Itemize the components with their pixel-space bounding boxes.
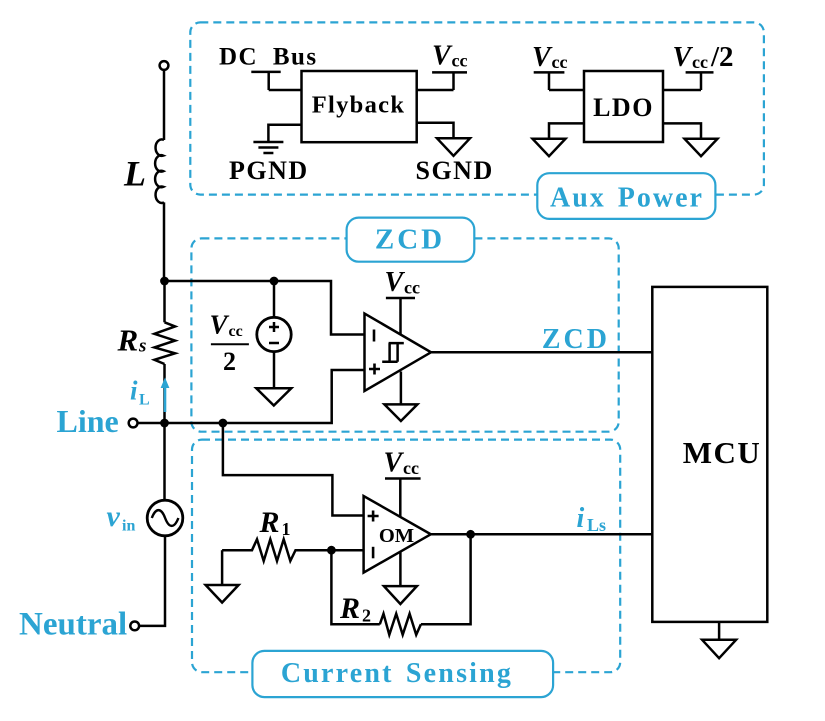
ground Vcc/2 source — [256, 388, 291, 405]
svg-text:v: v — [107, 500, 121, 533]
label Vcc OM — [384, 448, 419, 479]
node DC Bus terminal bar — [251, 72, 280, 90]
label Vcc/2 fraction — [210, 310, 249, 377]
node junction Line row / main column — [160, 419, 169, 428]
wire Rs to Line node — [163, 364, 166, 423]
wire DC Bus to Flyback — [269, 89, 302, 92]
svg-text:i: i — [130, 376, 138, 406]
svg-text:cc: cc — [404, 278, 420, 298]
svg-text:V: V — [673, 42, 694, 73]
label minus input U1 — [373, 330, 376, 342]
node Vcc terminal bar (LDO input) — [534, 72, 584, 90]
svg-text:2: 2 — [362, 606, 371, 626]
resistor R1 — [222, 539, 331, 561]
label plus input OM — [368, 511, 379, 522]
ground LDO left triangle — [533, 139, 566, 157]
svg-text:s: s — [138, 336, 146, 357]
label R2 — [339, 592, 371, 626]
label Vcc U1 — [385, 267, 420, 298]
power Vcc bar U1 — [386, 298, 415, 335]
svg-text:R: R — [117, 323, 139, 358]
op-amp U1 comparator — [365, 314, 432, 392]
aux power dashed box — [190, 22, 764, 194]
wire terminal to inductor — [163, 70, 166, 140]
label iL — [130, 376, 150, 409]
svg-text:L: L — [123, 154, 146, 194]
source vin AC — [147, 500, 183, 536]
label Vcc flyback — [432, 41, 467, 72]
wire node to Rs — [163, 281, 166, 322]
svg-text:OM: OM — [379, 525, 414, 547]
wire SGND pin — [417, 123, 454, 139]
ground SGND triangle — [437, 138, 470, 156]
label Rs — [117, 323, 147, 358]
ground LDO right triangle — [685, 139, 718, 157]
source Vcc/2 — [257, 317, 291, 351]
svg-text:cc: cc — [229, 323, 243, 340]
wire MCU to ground — [718, 622, 721, 640]
svg-text:V: V — [210, 310, 230, 340]
svg-text:L: L — [139, 392, 150, 409]
op-amp U4 OM — [364, 496, 431, 573]
svg-text:/2: /2 — [710, 41, 734, 73]
wire node to OM minus — [331, 549, 363, 552]
wire ZCD output to MCU — [431, 351, 652, 354]
wire source to ground — [273, 352, 276, 389]
wire ZCD top rail — [165, 281, 365, 335]
inductor L — [155, 139, 164, 203]
wire node down to R2 — [331, 550, 379, 624]
svg-text:PGND: PGND — [229, 156, 309, 185]
ground R1 — [206, 585, 239, 603]
svg-text:V: V — [384, 448, 405, 479]
power Vcc bar OM — [385, 479, 421, 517]
label iLs signal — [577, 503, 607, 535]
ZCD dashed box — [191, 238, 618, 431]
svg-text:Ls: Ls — [587, 515, 606, 535]
label pill Aux Power — [537, 173, 715, 219]
label Vcc LDO input — [532, 42, 567, 73]
node Vcc terminal bar (flyback output) — [417, 72, 467, 90]
resistor Rs — [154, 322, 175, 364]
current sensing dashed box — [192, 440, 620, 673]
svg-text:Current Sensing: Current Sensing — [281, 658, 513, 689]
node Line terminal — [129, 419, 138, 428]
label plus input U1 — [369, 364, 380, 375]
label R1 — [259, 506, 291, 539]
MCU U5 — [652, 287, 767, 622]
wire LDO right ground — [663, 123, 701, 138]
svg-text:Neutral: Neutral — [19, 607, 127, 643]
node input terminal (top) — [160, 61, 169, 70]
svg-text:V: V — [432, 41, 453, 72]
label pill Current Sensing — [252, 651, 553, 697]
ground MCU — [702, 640, 736, 658]
svg-text:Flyback: Flyback — [312, 92, 406, 119]
svg-text:MCU: MCU — [683, 435, 762, 470]
wire R2 up to output — [421, 534, 471, 624]
svg-text:Aux Power: Aux Power — [550, 183, 704, 214]
label pill ZCD — [347, 218, 475, 262]
label Vcc/2 — [673, 41, 734, 73]
hysteresis symbol U1 — [382, 343, 404, 362]
svg-text:cc: cc — [403, 458, 419, 478]
svg-text:cc: cc — [552, 52, 568, 72]
label minus input OM — [372, 547, 375, 559]
ground PGND earth symbol — [253, 142, 283, 153]
ground U1 — [384, 404, 417, 421]
wire PGND pin — [268, 125, 301, 141]
node Neutral terminal — [130, 622, 139, 631]
wire OM output to MCU — [431, 533, 652, 536]
resistor R2 — [380, 614, 421, 635]
svg-text:1: 1 — [282, 519, 291, 539]
svg-text:in: in — [122, 518, 135, 535]
svg-text:ZCD: ZCD — [542, 324, 610, 355]
wire tap down to source — [273, 281, 276, 317]
svg-text:R: R — [339, 592, 360, 625]
wire R1 to ground — [221, 550, 224, 585]
wire LDO left ground — [549, 123, 584, 138]
wire U1 to ground — [400, 372, 403, 405]
node Vcc/2 terminal bar (LDO output) — [663, 72, 714, 90]
wire tap to OM + input — [223, 423, 364, 516]
node junction main/ZCD top — [160, 277, 169, 286]
svg-text:LDO: LDO — [593, 93, 654, 122]
node junction output/R2 — [466, 530, 475, 539]
current arrow iL — [161, 378, 170, 413]
wire Line terminal to main — [138, 422, 165, 425]
svg-text:i: i — [577, 503, 585, 534]
svg-text:SGND: SGND — [416, 156, 494, 185]
node junction Vcc/2 source tap — [270, 277, 279, 286]
svg-text:cc: cc — [692, 52, 708, 72]
LDO U3 — [584, 71, 663, 142]
svg-text:Line: Line — [57, 403, 119, 439]
svg-text:V: V — [532, 42, 553, 73]
wire vin to Neutral — [139, 536, 165, 626]
wire inductor to node — [163, 202, 166, 281]
node junction current-sense tap — [219, 419, 228, 428]
svg-text:DC Bus: DC Bus — [219, 44, 318, 71]
svg-text:ZCD: ZCD — [375, 224, 445, 256]
flyback U2 — [302, 71, 417, 142]
ground OM — [384, 586, 417, 604]
label vin — [107, 500, 136, 535]
wire Line node down to vin — [163, 423, 166, 500]
svg-text:cc: cc — [452, 51, 468, 71]
wire ZCD bottom rail (Line row to + input) — [165, 370, 365, 423]
svg-text:V: V — [385, 267, 406, 298]
svg-text:2: 2 — [223, 347, 236, 376]
wire OM to ground — [399, 552, 402, 586]
node junction R1/R2/minus — [327, 546, 336, 555]
svg-text:R: R — [259, 506, 280, 539]
